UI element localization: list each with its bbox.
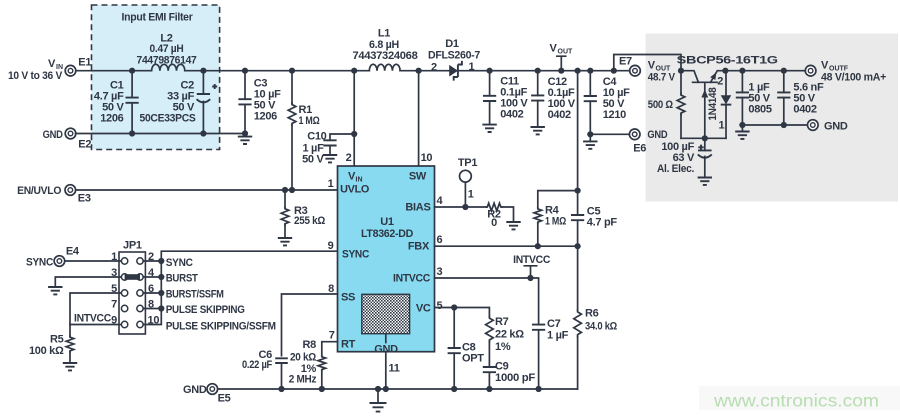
node dot C3 bottom: [242, 130, 248, 136]
label C8: [462, 342, 484, 365]
svg-text:5: 5: [111, 283, 117, 295]
svg-text:5: 5: [437, 300, 443, 312]
svg-text:1: 1: [111, 251, 117, 263]
svg-text:C10: C10: [307, 131, 326, 143]
wire pin9 INTVCC: [70, 324, 121, 326]
capacitor C8: [448, 308, 461, 390]
Input EMI Filter dashed box: [92, 5, 220, 150]
wire JP1 right bus: [143, 251, 337, 324]
svg-text:1206: 1206: [100, 113, 123, 125]
capacitor C7: [532, 325, 545, 330]
svg-text:www.cntronics.com: www.cntronics.com: [713, 391, 879, 411]
node dot C2 bottom: [200, 130, 206, 136]
label C12: [548, 76, 576, 121]
wire E7 stub: [614, 70, 630, 72]
label R6: [585, 308, 617, 333]
svg-text:SYNC: SYNC: [26, 257, 53, 269]
svg-text:10 V to 36 V: 10 V to 36 V: [8, 70, 63, 82]
svg-text:TP1: TP1: [458, 157, 477, 169]
node dot C4 bottom: [587, 131, 593, 137]
inductor L1: [369, 64, 400, 70]
label R3: [294, 205, 325, 227]
svg-text:2: 2: [431, 62, 437, 74]
node dot 1uF bottom: [739, 122, 745, 128]
node dot VOUT stub: [558, 68, 564, 74]
node dot C9 rail: [486, 386, 492, 392]
node dot FBX junction: [575, 243, 581, 249]
svg-text:RT: RT: [341, 339, 356, 351]
label R7: [495, 316, 524, 353]
svg-text:D1: D1: [445, 38, 459, 50]
terminal E6: [629, 129, 640, 140]
svg-text:22 kΩ: 22 kΩ: [495, 329, 524, 341]
svg-text:R7: R7: [495, 316, 509, 328]
label C1: [94, 80, 125, 125]
connector JP1 box: [119, 252, 145, 334]
resistor R3: [281, 190, 289, 238]
wire FBX pin6: [435, 245, 578, 247]
svg-text:1%: 1%: [495, 341, 511, 353]
wire FBX/R6 vertical main: [577, 71, 579, 389]
svg-text:48 V/100 mA+: 48 V/100 mA+: [821, 72, 886, 84]
svg-text:U1: U1: [380, 216, 394, 228]
svg-text:1000 pF: 1000 pF: [495, 372, 536, 384]
svg-text:V: V: [48, 58, 56, 70]
svg-text:V: V: [550, 43, 558, 55]
transistor Q1 SBCP56 (NPN): [681, 71, 725, 83]
svg-text:UVLO: UVLO: [340, 184, 370, 196]
resistor R7: [486, 316, 494, 341]
svg-text:L1: L1: [378, 28, 390, 40]
terminal E2: [65, 128, 76, 139]
svg-text:3: 3: [437, 266, 443, 278]
svg-text:E2: E2: [78, 139, 91, 151]
svg-text:11: 11: [389, 363, 400, 375]
wire VC pin5: [435, 308, 490, 390]
output filter gray panel: [646, 34, 898, 202]
label C4: [603, 76, 630, 121]
wire bottom rail: [217, 388, 577, 390]
svg-text:R8: R8: [303, 339, 317, 351]
node dot base node: [702, 135, 708, 141]
ground C11: [482, 125, 496, 132]
svg-text:1: 1: [469, 61, 475, 73]
label VOUT 48.7V: [648, 60, 676, 84]
svg-text:6: 6: [437, 234, 443, 246]
ground filter: [735, 125, 749, 139]
svg-text:Al. Elec.: Al. Elec.: [657, 163, 694, 175]
terminal E1: [65, 65, 76, 76]
svg-text:INTVCC: INTVCC: [393, 273, 430, 285]
label R4: [545, 205, 566, 228]
svg-text:50CE33PCS: 50CE33PCS: [140, 113, 196, 125]
JP1 pin numbers left: [111, 251, 117, 327]
svg-text:34.0 kΩ: 34.0 kΩ: [585, 321, 617, 333]
resistor R6: [574, 310, 582, 337]
svg-text:GND: GND: [183, 384, 207, 396]
label R8: [289, 339, 317, 386]
svg-text:1206: 1206: [254, 111, 277, 123]
svg-text:C9: C9: [495, 361, 509, 373]
svg-text:VC: VC: [416, 303, 431, 315]
svg-text:GND: GND: [824, 121, 848, 133]
svg-text:0402: 0402: [793, 104, 816, 116]
svg-text:255 kΩ: 255 kΩ: [294, 215, 325, 227]
svg-text:PULSE SKIPPING: PULSE SKIPPING: [166, 304, 245, 316]
svg-text:SS: SS: [341, 292, 355, 304]
diode D1 (schottky): [449, 61, 462, 81]
label 100uF 63V Al. Elec.: [657, 141, 695, 175]
watermark: [699, 386, 900, 410]
wire base node: [681, 82, 726, 138]
svg-text:9: 9: [111, 315, 117, 327]
resistor R8: [318, 356, 326, 371]
node dot 5.6nF bottom: [781, 122, 787, 128]
wire VIN rail E1 to E7 corner: [76, 55, 682, 71]
capacitor C2 (polarized): [197, 71, 218, 134]
ground R2: [506, 222, 520, 229]
node dot gnd stem: [375, 386, 381, 392]
node dot pin11: [383, 386, 389, 392]
terminal E4: [54, 256, 65, 267]
svg-text:INTVCC: INTVCC: [74, 313, 111, 325]
ground C3: [238, 134, 252, 145]
label C2: [140, 80, 196, 125]
wire SW pin10 vertical: [418, 71, 420, 166]
node dot Q1 emitter rail: [722, 68, 728, 74]
svg-text:E3: E3: [78, 193, 91, 205]
node dot 5.6nF top: [781, 68, 787, 74]
svg-text:1: 1: [328, 178, 334, 190]
svg-text:0805: 0805: [748, 104, 771, 116]
ground R5: [63, 363, 77, 370]
svg-text:100 kΩ: 100 kΩ: [29, 345, 64, 357]
label C3: [254, 78, 281, 123]
svg-text:E5: E5: [218, 393, 231, 405]
svg-text:SYNC: SYNC: [342, 249, 369, 261]
resistor R5: [66, 336, 74, 363]
node dot L1 right: [416, 68, 422, 74]
op-amp U1 block: [338, 166, 435, 352]
svg-text:PULSE SKIPPING/SSFM: PULSE SKIPPING/SSFM: [166, 321, 276, 333]
svg-text:50 V: 50 V: [302, 154, 324, 166]
node dot C4 top: [587, 68, 593, 74]
ground R3: [278, 238, 292, 245]
capacitor C10: [323, 134, 354, 155]
svg-text:BURST: BURST: [166, 273, 199, 285]
svg-text:C7: C7: [547, 318, 561, 330]
ground C12: [531, 127, 545, 134]
capacitor 5.6nF 0402: [777, 71, 790, 125]
capacitor C12: [531, 71, 544, 127]
svg-text:500 Ω: 500 Ω: [648, 99, 673, 111]
svg-text:0402: 0402: [548, 109, 571, 121]
svg-text:1: 1: [719, 120, 725, 132]
node dot C2 top: [200, 68, 206, 74]
svg-text:9: 9: [328, 240, 334, 252]
svg-text:FBX: FBX: [408, 241, 430, 253]
terminal GND filter: [808, 120, 819, 131]
resistor 500 ohm: [677, 71, 685, 139]
svg-text:DFLS260-7: DFLS260-7: [428, 50, 480, 62]
capacitor C1: [126, 71, 139, 134]
node dot C11: [487, 68, 493, 74]
svg-text:BURST/SSFM: BURST/SSFM: [166, 289, 224, 301]
wire E4 to JP1 pin1: [65, 260, 122, 262]
node dot C10/VIN: [351, 131, 357, 137]
node dot E7 tap: [611, 68, 617, 74]
label C5: [587, 206, 618, 229]
label C11: [500, 76, 528, 121]
terminal E5: [207, 384, 218, 395]
wire U1 pin11: [385, 352, 387, 389]
svg-text:2 MHz: 2 MHz: [289, 374, 317, 386]
svg-text:1 µF: 1 µF: [547, 330, 569, 342]
node dot INTVCC stub: [527, 275, 533, 281]
ground C10: [323, 155, 337, 162]
capacitor C4: [584, 71, 597, 135]
svg-text:OPT: OPT: [462, 353, 484, 365]
base lead arrow: [701, 90, 708, 98]
wire GND rail E2 to C3: [76, 133, 246, 135]
node dot L1 left: [351, 68, 357, 74]
label 1uF 50V 0805: [748, 82, 771, 116]
svg-text:48.7 V: 48.7 V: [648, 72, 676, 84]
capacitor C9: [483, 367, 496, 372]
svg-text:R5: R5: [50, 334, 64, 346]
svg-text:4.7 pF: 4.7 pF: [587, 217, 618, 229]
svg-text:0: 0: [491, 217, 497, 229]
label R1: [299, 104, 320, 127]
test point TP1: [460, 170, 472, 207]
wire E6 GND: [590, 133, 629, 135]
node dot R3 top: [282, 187, 288, 193]
wire pin3 to gnd: [55, 277, 121, 287]
svg-text:1: 1: [468, 189, 474, 201]
svg-text:EN/UVLO: EN/UVLO: [17, 185, 62, 197]
svg-text:R6: R6: [585, 308, 599, 320]
terminal VOUTF: [805, 65, 816, 76]
node dot C12: [535, 68, 541, 74]
svg-text:0.47 µH: 0.47 µH: [150, 43, 184, 55]
node dot bus row3: [158, 290, 164, 296]
node dot C8: [451, 304, 457, 310]
capacitor C6: [275, 358, 288, 363]
label C10: [302, 131, 327, 166]
svg-text:BIAS: BIAS: [405, 202, 430, 214]
JP1 shunt jumper pins 3-4: [125, 274, 140, 280]
node dot R8 rail: [319, 386, 325, 392]
svg-text:7: 7: [111, 299, 117, 311]
label 5.6nF 50V 0402: [793, 82, 824, 116]
node dot R4 bottom: [535, 243, 541, 249]
label L2: [137, 32, 197, 66]
label U1 VIN: [348, 171, 363, 184]
label R2: [487, 209, 501, 230]
svg-text:20 kΩ: 20 kΩ: [290, 352, 316, 364]
svg-text:3: 3: [111, 267, 117, 279]
wire BIAS pin4: [435, 206, 487, 208]
svg-text:SYNC: SYNC: [166, 257, 193, 269]
svg-text:JP1: JP1: [123, 239, 142, 251]
label VOUTF: [821, 60, 886, 84]
node dot C8 rail: [451, 386, 457, 392]
node VOUT flag: [550, 43, 574, 71]
svg-text:V: V: [821, 60, 829, 72]
capacitor C3: [238, 71, 251, 134]
node dot C1 bottom: [129, 130, 135, 136]
label C7: [547, 318, 569, 342]
node dot R4 top: [575, 188, 581, 194]
node dot TP1: [462, 204, 468, 210]
svg-text:IN: IN: [356, 177, 363, 184]
svg-text:2: 2: [346, 152, 352, 164]
svg-text:74437324068: 74437324068: [353, 50, 418, 62]
ground main: [370, 389, 387, 412]
node dot bus row1: [158, 258, 164, 264]
wire RT pin7: [322, 342, 338, 389]
node dot C1 top: [129, 68, 135, 74]
svg-text:0402: 0402: [500, 109, 523, 121]
node dot bus row4: [158, 305, 164, 311]
node dot 1uF top: [739, 68, 745, 74]
resistor R2 (horizontal): [486, 203, 513, 222]
terminal E7: [630, 65, 641, 76]
wire emitter rail to VOUTF: [725, 70, 805, 72]
node dot bus row2: [158, 274, 164, 280]
svg-text:E6: E6: [633, 143, 646, 155]
svg-text:SBCP56-16T1G: SBCP56-16T1G: [677, 55, 778, 67]
svg-text:E1: E1: [78, 56, 91, 68]
label D1: [428, 38, 480, 62]
ground JP1 pin3: [48, 287, 62, 294]
svg-text:Input EMI Filter: Input EMI Filter: [122, 12, 194, 24]
node dot C3 top: [242, 68, 248, 74]
node dot C6 rail: [278, 386, 284, 392]
label R5: [29, 334, 64, 358]
svg-text:74479876147: 74479876147: [137, 54, 197, 66]
wire filter bottom GND: [742, 124, 808, 126]
node INTVCC flag: [513, 254, 550, 278]
svg-text:1N4148: 1N4148: [707, 87, 719, 120]
node dot FBX vert top: [575, 68, 581, 74]
capacitor C5: [571, 215, 584, 220]
svg-text:INTVCC: INTVCC: [513, 254, 550, 266]
svg-text:E7: E7: [619, 56, 632, 68]
capacitor 1uF 0805: [736, 71, 749, 125]
svg-text:2: 2: [717, 76, 723, 88]
wire SS pin8: [282, 294, 338, 389]
U1 exposed pad: [362, 294, 410, 342]
wire VIN pin2 vertical: [353, 71, 355, 166]
svg-text:SW: SW: [409, 171, 427, 183]
JP1 pin circles right: [137, 258, 143, 328]
svg-text:OUT: OUT: [558, 49, 574, 56]
ground C4: [583, 134, 597, 149]
JP1 pin numbers right: [148, 251, 160, 327]
inductor L2: [152, 64, 185, 70]
svg-text:1 MΩ: 1 MΩ: [299, 115, 320, 127]
resistor R4: [534, 191, 578, 247]
resistor R1: [288, 71, 296, 190]
svg-text:10: 10: [421, 152, 433, 164]
label VIN: [48, 58, 63, 71]
capacitor C11: [483, 71, 496, 125]
node dot C7 rail: [536, 386, 542, 392]
svg-text:0.22 µF: 0.22 µF: [242, 359, 272, 371]
ground 100uF: [698, 178, 712, 185]
svg-text:E4: E4: [66, 246, 80, 258]
svg-text:GND: GND: [43, 129, 63, 141]
capacitor 100uF Al elec: [698, 138, 712, 177]
node dot R1 bottom: [289, 187, 295, 193]
wire INTVCC pin3: [435, 278, 539, 389]
JP1 pin circles left: [121, 258, 127, 328]
svg-text:1210: 1210: [603, 109, 626, 121]
label L1: [353, 28, 418, 63]
node dot R1 top: [289, 68, 295, 74]
label C6: [242, 349, 272, 371]
node dot Q1 collector feed: [678, 68, 684, 74]
svg-text:6.8 µH: 6.8 µH: [369, 39, 399, 51]
terminal E3: [65, 185, 76, 196]
svg-text:7: 7: [329, 330, 335, 342]
label C9: [495, 361, 536, 385]
svg-text:GND: GND: [647, 129, 667, 141]
svg-text:1 MΩ: 1 MΩ: [545, 216, 566, 228]
wire pin5 down: [70, 293, 121, 336]
diode 1N4148: [721, 71, 732, 139]
svg-text:LT8362-DD: LT8362-DD: [361, 228, 413, 240]
wire EN/UVLO to U1 pin1: [76, 189, 338, 191]
